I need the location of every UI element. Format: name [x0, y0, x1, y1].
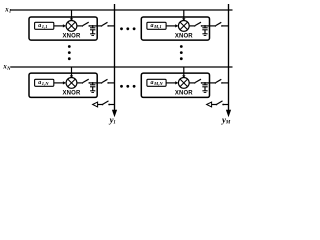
cell(2,2) XNOR gate U [178, 78, 189, 89]
wire x1 row line [11, 9, 233, 11]
svg-text:N: N [6, 67, 11, 72]
cell(2,1) XNOR gate U [66, 78, 77, 89]
cell(2,1) wire box to XNOR [54, 82, 63, 84]
svg-text:XNOR: XNOR [63, 34, 81, 40]
cell(1,2) XNOR gate U [178, 21, 189, 32]
cell(2,1) XNOR label [63, 91, 81, 97]
cell(1,2) ground [202, 34, 207, 36]
node yM label [221, 115, 231, 126]
cell(2,1) wire switch to bus [108, 82, 114, 84]
cell(1,1) XNOR label [63, 34, 81, 40]
svg-text:1: 1 [9, 10, 11, 15]
node x1 label [4, 7, 11, 15]
column y1 clock input arrow [93, 102, 98, 107]
cell(2,1) wire row tap into XNOR [71, 67, 73, 76]
cell(1,1) wire row tap into XNOR [71, 10, 73, 19]
cell(1,1) junction node [92, 25, 94, 27]
cell(2,1) ground [90, 91, 95, 93]
wire bus y1 [114, 4, 116, 111]
cell(2,2) XNOR label [175, 91, 193, 97]
svg-text:XNOR: XNOR [63, 91, 81, 97]
ellipsis columns row 2 [120, 85, 123, 88]
cell(1,2) capacitor C [202, 26, 207, 34]
column y1 wire arrow to switch [97, 104, 102, 106]
cell(1,1) wire to cell edge [89, 25, 101, 27]
ellipsis rows column 2 [180, 45, 183, 48]
cell(1,1) coefficient box a1,1 [35, 22, 54, 29]
ellipsis columns row 1 [120, 27, 123, 30]
cell(2,2) cell outline [141, 73, 209, 97]
cell(2,1) coefficient box a1,N [35, 79, 54, 86]
svg-text:a: a [38, 23, 41, 29]
cell(2,1) capacitor C [90, 83, 95, 91]
cell(1,2) XNOR label [175, 34, 193, 40]
cell(2,1) junction node [92, 82, 94, 84]
svg-text:a: a [151, 80, 154, 86]
cell(1,1) wire switch to bus [108, 25, 114, 27]
cell(2,2) sample switch S [194, 79, 202, 84]
cell(1,2) sample switch S [194, 22, 202, 27]
cell(2,2) capacitor C [202, 83, 207, 91]
ellipsis rows column 1 [68, 45, 71, 48]
column yM output switch [216, 101, 224, 105]
cell(1,2) wire XNOR to sample switch [189, 25, 194, 27]
cell(1,2) wire switch to bus [222, 25, 229, 27]
cell(2,2) wire to cell edge [202, 82, 216, 84]
svg-text:1,1: 1,1 [42, 24, 48, 29]
cell(1,1) ground [90, 34, 95, 36]
cell(2,2) junction node [204, 82, 206, 84]
cell(2,1) sample switch S [82, 79, 90, 84]
cell(1,1) XNOR gate U [66, 21, 77, 32]
column y1 output switch [102, 101, 110, 105]
cell(1,2) coefficient box aM,1 [147, 22, 166, 29]
cell(2,2) ground [202, 91, 207, 93]
wire bus yM [228, 4, 230, 111]
cell(2,2) wire XNOR to sample switch [189, 82, 194, 84]
cell(2,2) wire row tap into XNOR [183, 67, 185, 76]
cell(2,2) coefficient box aM,N [147, 79, 166, 86]
column y1 wire switch to bus [109, 104, 114, 106]
cell(1,1) cell outline [29, 17, 97, 40]
wire xN row line [11, 66, 233, 68]
node y1 label [109, 115, 116, 126]
node y1 output arrow [112, 110, 117, 117]
node yM output arrow [226, 110, 231, 117]
cell(1,1) wire box to XNOR [54, 25, 63, 27]
svg-text:XNOR: XNOR [175, 91, 193, 97]
cell(2,2) wire switch to bus [222, 82, 229, 84]
cell(2,1) wire to cell edge [89, 82, 101, 84]
svg-text:1,N: 1,N [42, 81, 49, 86]
cell(1,1) sample switch S [82, 22, 90, 27]
cell(1,1) column switch [101, 22, 109, 26]
svg-text:M: M [225, 121, 231, 126]
cell(1,2) wire box to XNOR [166, 25, 175, 27]
cell(2,1) cell outline [29, 73, 97, 97]
cell(1,2) junction node [204, 25, 206, 27]
svg-text:a: a [38, 80, 41, 86]
cell(1,2) column switch [215, 22, 223, 26]
cell(1,1) wire XNOR to sample switch [77, 25, 82, 27]
svg-text:a: a [151, 23, 154, 29]
cell(2,1) column switch [101, 79, 109, 83]
cell(2,1) wire XNOR to sample switch [77, 82, 82, 84]
svg-text:1: 1 [113, 121, 116, 126]
column yM wire arrow to switch [211, 104, 216, 106]
svg-text:M,N: M,N [153, 81, 163, 86]
column yM clock input arrow [207, 102, 212, 107]
cell(1,2) wire row tap into XNOR [183, 10, 185, 19]
cell(1,2) wire to cell edge [202, 25, 216, 27]
svg-text:XNOR: XNOR [175, 34, 193, 40]
node xN label [2, 64, 11, 72]
column yM wire switch to bus [223, 104, 228, 106]
svg-text:M,1: M,1 [153, 24, 162, 29]
cell(1,1) capacitor C [90, 26, 95, 34]
cell(1,2) cell outline [141, 17, 209, 40]
cell(2,2) column switch [215, 79, 223, 83]
cell(2,2) wire box to XNOR [166, 82, 175, 84]
